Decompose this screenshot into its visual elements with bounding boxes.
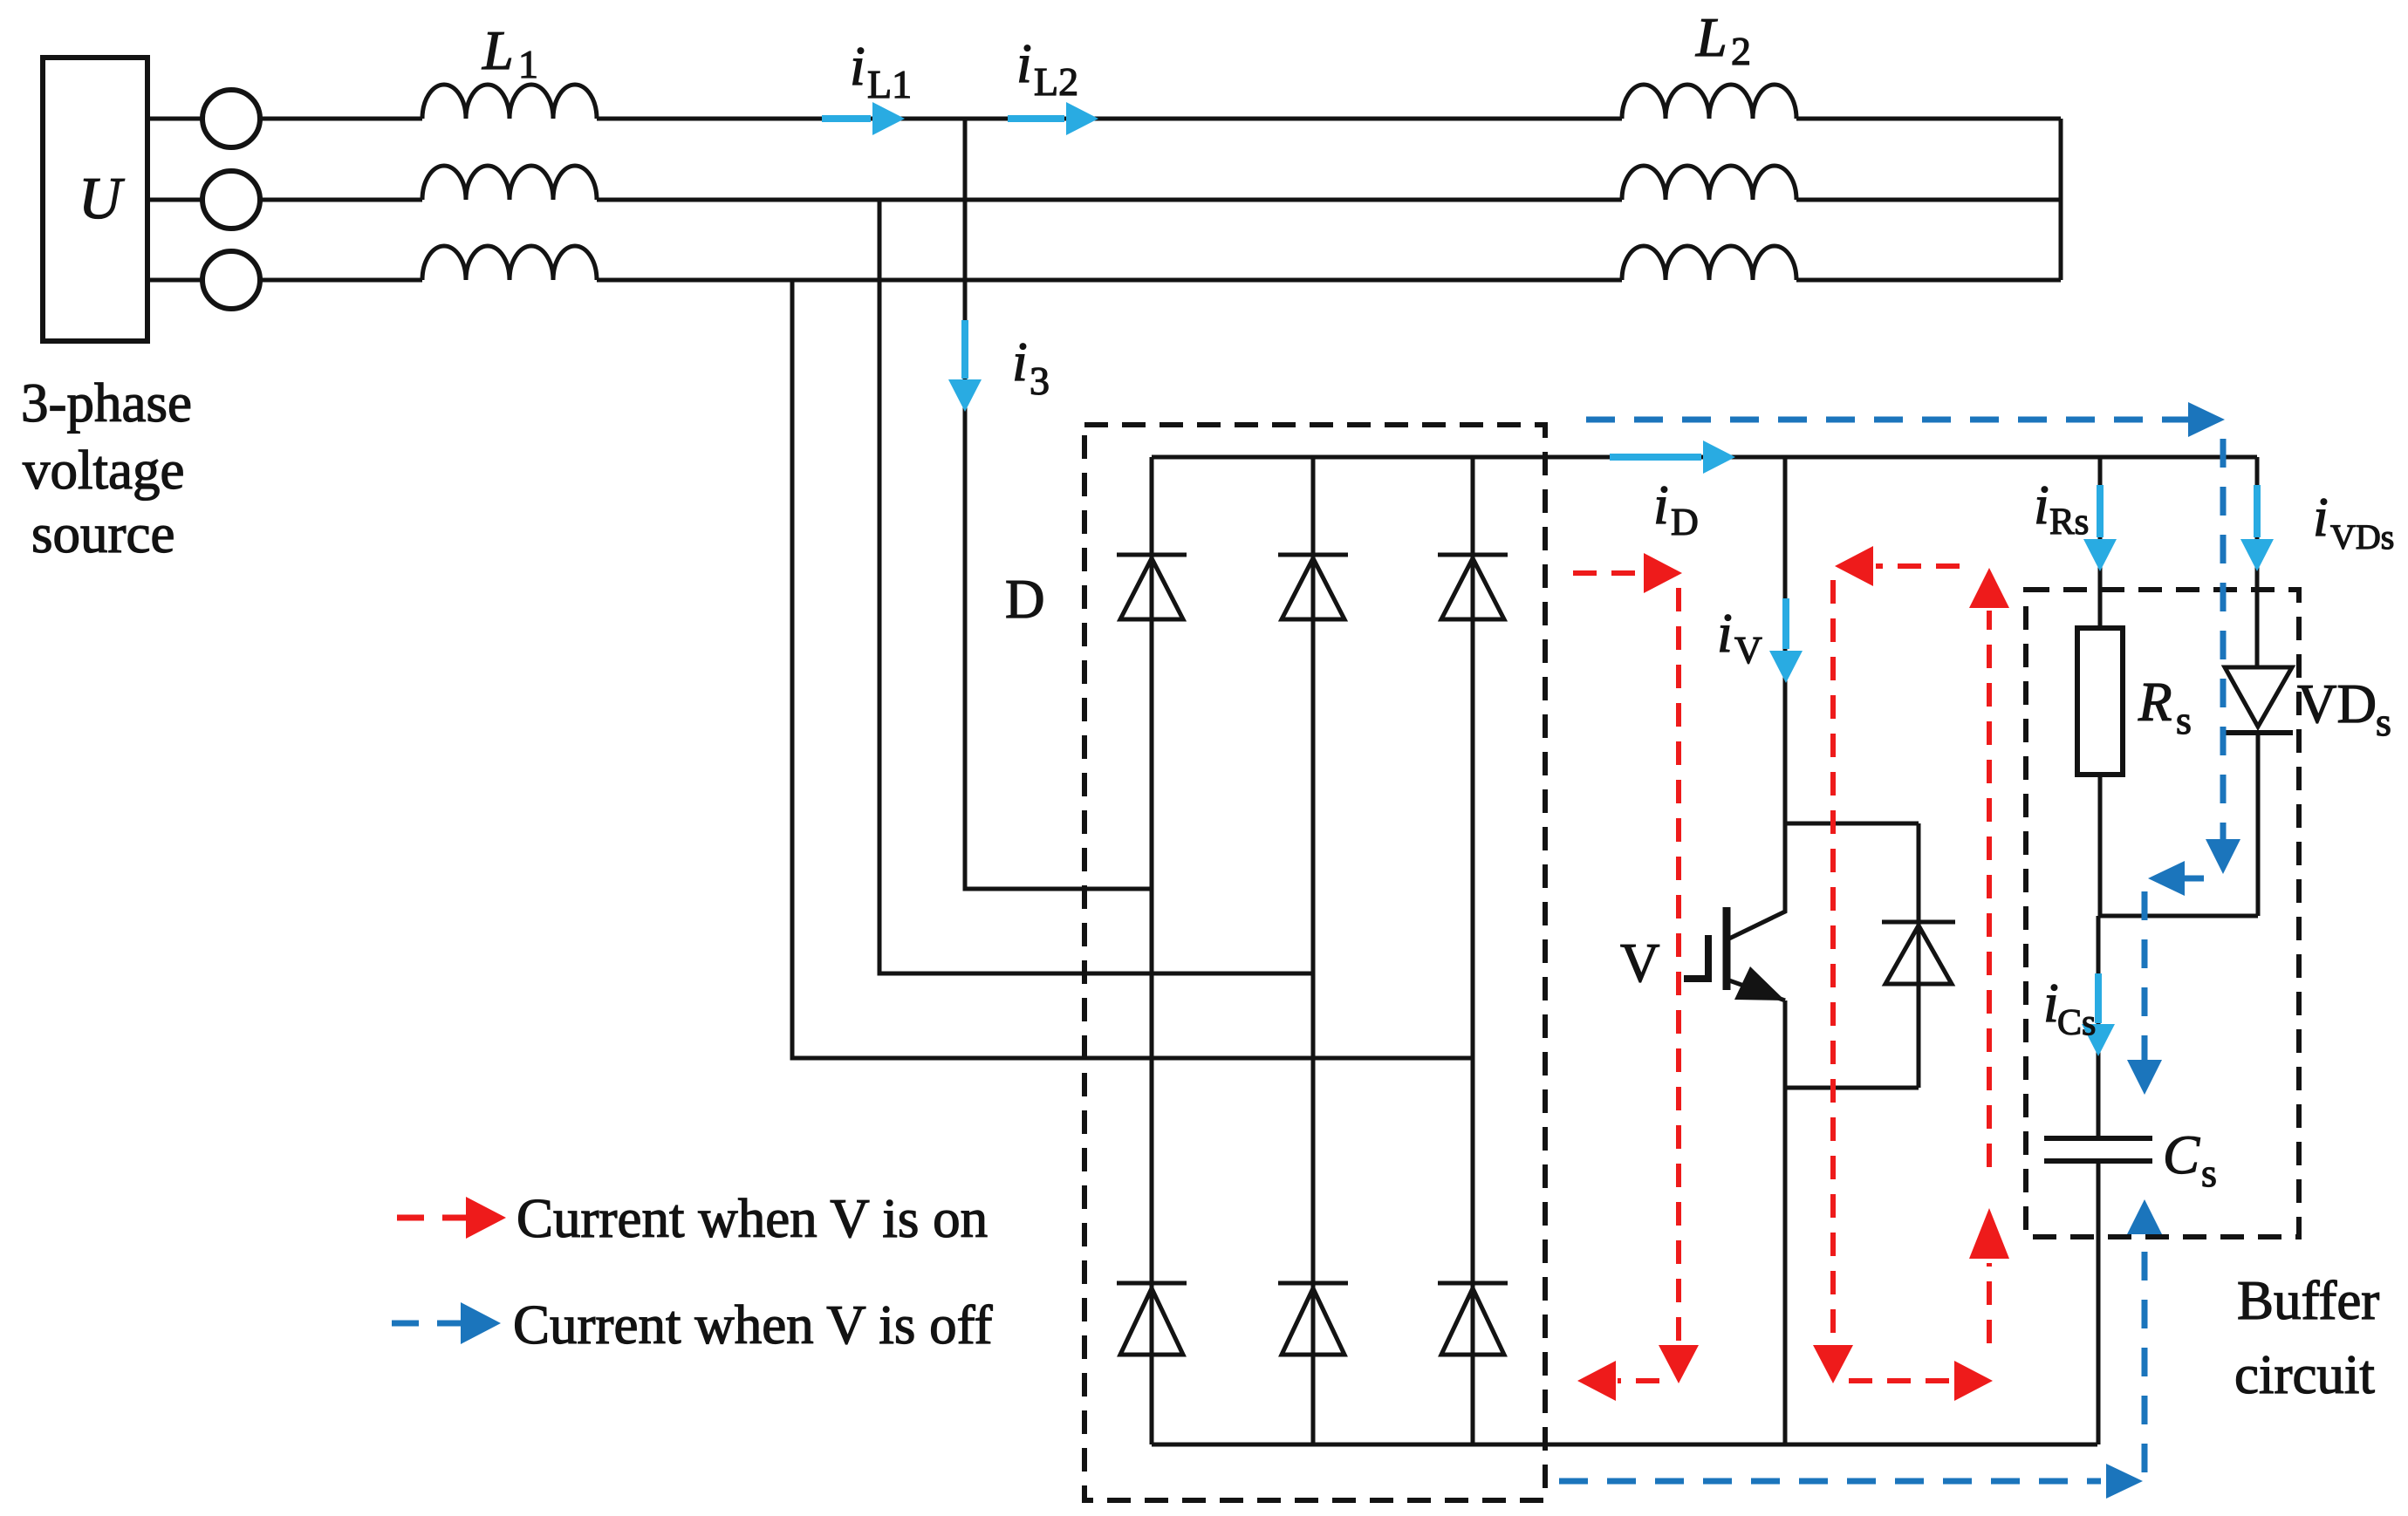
current arrow iL2 line [1008, 115, 1064, 122]
blue path turn left [2179, 876, 2204, 882]
transistor V emitter lead [1729, 980, 1785, 1000]
3-phase voltage source U box [43, 58, 147, 341]
capacitor Cs top plate [2044, 1136, 2152, 1141]
current arrow iVDs line [2254, 485, 2261, 537]
wire tap phase A down [965, 119, 1152, 889]
wire phase B to right end [1796, 198, 2061, 202]
red arrowhead loopB up top [1969, 568, 2009, 608]
wire phase C L1 to L2 [597, 278, 1622, 283]
red loop A down vertical [1676, 588, 1681, 1342]
diode VDs triangle [2225, 667, 2292, 727]
right end shorting wire [2059, 119, 2063, 280]
svg-text:Current when V is on: Current when V is on [516, 1188, 988, 1249]
svg-text:V: V [1620, 932, 1660, 994]
blue path top horizontal [1586, 417, 2192, 423]
arrowhead i3 [948, 379, 982, 412]
inductor L1 phase A [422, 85, 597, 119]
svg-text:Buffer: Buffer [2237, 1270, 2379, 1331]
red loop B top horizontal [1876, 563, 1960, 569]
blue path down between Rs and VDs [2220, 439, 2227, 843]
svg-text:C: C [2163, 1124, 2200, 1185]
arrowhead iL1 [872, 102, 905, 135]
svg-text:source: source [31, 503, 174, 564]
wire phase A L1 to L2 [597, 117, 1622, 121]
wire circle C to L1c [260, 278, 422, 283]
red loop A top horizontal [1573, 570, 1645, 576]
svg-text:i: i [1653, 474, 1669, 536]
red loop B left vertical [1830, 580, 1836, 1342]
svg-text:i: i [2034, 474, 2049, 536]
freewheel diode leg [1917, 823, 1921, 1088]
arrowhead iV [1769, 651, 1803, 683]
svg-text:i: i [1012, 331, 1028, 393]
diode VDs cathode bar [2222, 730, 2293, 735]
diode D4 lower leg1 [1117, 1281, 1187, 1286]
svg-text:i: i [1717, 602, 1733, 664]
svg-text:1: 1 [518, 42, 538, 86]
capacitor Cs bottom plate [2044, 1158, 2152, 1164]
diode D3 upper leg3 [1438, 553, 1508, 557]
inductor L1 phase B [422, 166, 597, 200]
phase B terminal circle [202, 171, 260, 229]
svg-text:D: D [1671, 501, 1699, 543]
arrowhead iRs [2083, 539, 2117, 571]
rectifier leg 1 [1150, 457, 1154, 1444]
inductor L2 phase C [1622, 246, 1796, 280]
svg-text:i: i [2313, 486, 2329, 548]
red loop B right vertical lower [1987, 1263, 1992, 1343]
arrowhead iD [1703, 440, 1735, 474]
wire IGBT/diode top split [1785, 822, 1919, 826]
diode D2 upper leg2 [1278, 553, 1348, 557]
wire junction to Cs top plate [2097, 916, 2101, 1138]
wire phase C to right end [1796, 278, 2061, 283]
inductor L2 phase A [1622, 85, 1796, 119]
wire top bus to Rs [2098, 457, 2103, 628]
blue arrowhead left mid [2148, 861, 2185, 896]
transistor V body bar [1723, 907, 1731, 990]
svg-text:Cs: Cs [2057, 1003, 2096, 1043]
blue arrowhead down to Cs [2127, 1060, 2162, 1095]
red loop B bottom horizontal [1849, 1378, 1953, 1383]
arrowhead iVDs [2240, 539, 2274, 571]
svg-text:V: V [1734, 629, 1762, 672]
wire tap phase B down [879, 200, 1313, 973]
blue path bottom horizontal [1559, 1478, 2101, 1485]
svg-text:3: 3 [1030, 359, 1050, 403]
current arrow iL1 line [822, 115, 871, 122]
svg-text:D: D [1005, 569, 1045, 630]
svg-text:Rs: Rs [2049, 502, 2089, 543]
resistor Rs body [2077, 628, 2123, 775]
phase A terminal circle [202, 90, 260, 147]
phase C terminal circle [202, 251, 260, 309]
current arrow iCs line [2095, 973, 2102, 1023]
svg-text:2: 2 [1731, 29, 1751, 73]
legend red dashed arrow [397, 1215, 469, 1221]
blue arrowhead up bottom [2127, 1199, 2162, 1234]
wire phase A to right end [1796, 117, 2061, 121]
diode D1 upper leg1 [1117, 553, 1187, 557]
red arrowhead loopB right [1954, 1361, 1993, 1401]
red arrowhead loopB left top [1835, 546, 1873, 586]
svg-text:L: L [1695, 6, 1727, 68]
arrowhead iL2 [1066, 102, 1098, 135]
current arrow iV line [1782, 598, 1789, 649]
wire U to circle B [147, 198, 202, 202]
current arrow iD line [1610, 454, 1701, 461]
current arrow i3 line [961, 320, 968, 379]
svg-text:i: i [1016, 32, 1032, 94]
red loop B right vertical upper [1987, 611, 1992, 1167]
wire Rs to junction [2098, 775, 2103, 916]
wire VDs to junction [2256, 733, 2261, 916]
arrowhead iCs [2082, 1024, 2115, 1056]
wire top bus to IGBT collector [1783, 457, 1788, 823]
svg-text:L1: L1 [867, 62, 912, 106]
svg-text:VD: VD [2297, 673, 2377, 734]
inductor L1 phase C [422, 246, 597, 280]
diode D5 lower leg2 [1278, 1281, 1348, 1286]
wire U to circle A [147, 117, 202, 121]
transistor V collector lead [1729, 823, 1785, 939]
wire circle A to L1a [260, 117, 422, 121]
current arrow iRs line [2097, 485, 2104, 537]
rectifier bottom bus [1152, 1443, 2097, 1447]
wire IGBT/diode bottom join [1785, 1086, 1919, 1090]
blue arrowhead down mid [2206, 839, 2240, 874]
wire Cs to bottom bus [2097, 1161, 2101, 1444]
svg-text:s: s [2176, 698, 2192, 742]
rectifier leg 3 [1471, 457, 1475, 1444]
wire Rs-VDs junction bar [2098, 914, 2258, 918]
inductor L2 phase B [1622, 166, 1796, 200]
red arrowhead loopA down [1659, 1345, 1699, 1383]
svg-text:VDs: VDs [2330, 517, 2394, 557]
svg-text:L2: L2 [1034, 59, 1078, 104]
svg-text:R: R [2138, 672, 2172, 733]
legend blue dashed arrow [392, 1321, 464, 1327]
blue arrowhead right bottom [2106, 1464, 2143, 1499]
diode D6 lower leg3 [1438, 1281, 1508, 1286]
wire tap phase C down [792, 280, 1473, 1058]
freewheel diode cathode bar [1882, 920, 1955, 925]
blue arrowhead right top [2188, 402, 2225, 437]
red loop A bottom left [1618, 1378, 1659, 1383]
blue path up into Cs bottom [2142, 1235, 2148, 1472]
wire circle B to L1b [260, 198, 422, 202]
red arrowhead loopA right [1644, 553, 1682, 593]
wire IGBT emitter to bottom bus [1783, 1000, 1788, 1444]
svg-text:s: s [2376, 700, 2391, 744]
freewheel diode triangle [1885, 925, 1952, 984]
transistor V gate [1684, 935, 1708, 979]
svg-text:voltage: voltage [23, 440, 184, 501]
red arrowhead loopB down [1813, 1345, 1853, 1383]
svg-text:s: s [2201, 1151, 2217, 1195]
transistor V emitter arrowhead [1734, 966, 1785, 1000]
red arrowhead loopB up mid [1969, 1208, 2009, 1259]
svg-text:i: i [850, 35, 865, 97]
svg-text:circuit: circuit [2234, 1344, 2375, 1405]
rectifier D dashed box [1084, 425, 1545, 1500]
blue path down to Cs top [2142, 891, 2148, 1062]
rectifier top bus [1152, 455, 2257, 460]
wire U to circle C [147, 278, 202, 283]
svg-text:U: U [79, 165, 125, 231]
svg-text:L: L [482, 19, 514, 81]
svg-text:Current when V is off: Current when V is off [513, 1294, 992, 1356]
svg-text:3-phase: 3-phase [21, 372, 192, 434]
rectifier leg 2 [1311, 457, 1316, 1444]
red arrowhead loopA left [1577, 1361, 1616, 1401]
buffer circuit dashed box [2026, 590, 2299, 1237]
wire phase B L1 to L2 [597, 198, 1622, 202]
wire top bus corner to VDs [2255, 457, 2260, 667]
